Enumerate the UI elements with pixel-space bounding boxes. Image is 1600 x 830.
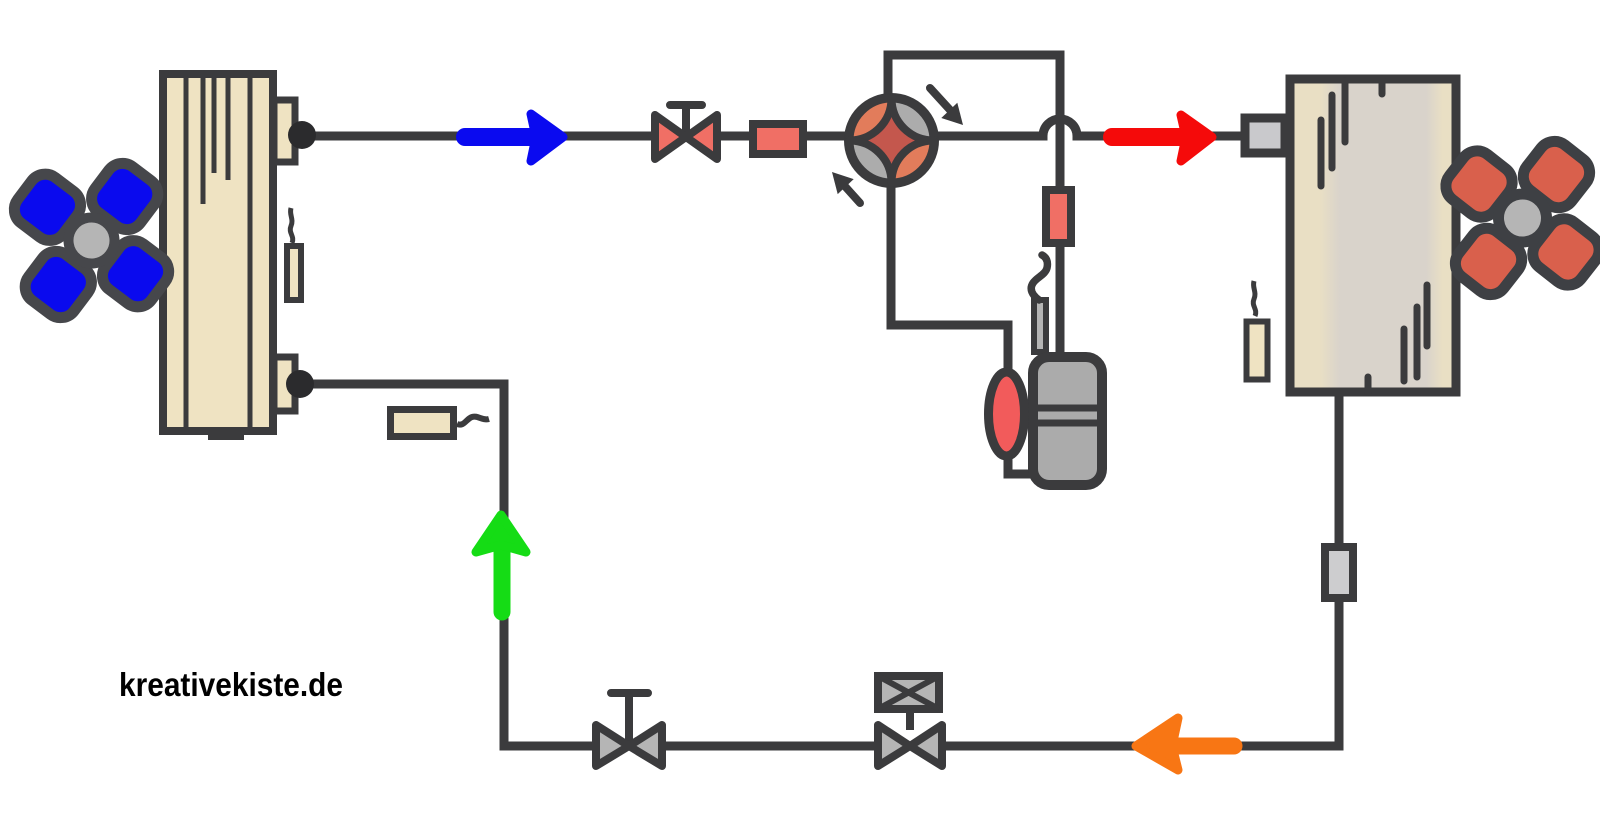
compressor band line 1	[1030, 405, 1104, 412]
sensor S3 bulb (horizontal)	[391, 410, 454, 437]
filter FD2 (red, vertical)	[1046, 190, 1071, 243]
lens bottom-left (cool)	[850, 141, 892, 183]
HX1 bottom port dot	[286, 370, 314, 398]
heat exchanger HX1 bottom port tab	[274, 357, 295, 411]
wire filter to compressor	[1056, 240, 1065, 355]
flow arrow blue	[465, 114, 563, 161]
lens top-right (cool)	[892, 99, 934, 141]
heat exchanger HX1 top port tab	[274, 100, 295, 162]
HX1 fin line 4	[226, 78, 231, 180]
hand valve V2 body	[596, 725, 662, 766]
wire top main pipe with crossover hop	[302, 119, 1286, 136]
wire 4-way valve top loop	[888, 55, 1060, 186]
4-way reversing valve	[850, 99, 934, 183]
fan F2 (red)	[1434, 130, 1600, 307]
solenoid valve V3 coil box	[878, 676, 939, 709]
HX1 fin line 2	[201, 78, 206, 204]
HX1 fin line 5	[248, 78, 253, 427]
lens top-left (warm)	[850, 99, 892, 141]
sensor S3 squiggle	[457, 417, 489, 425]
sensor S1 bulb	[287, 246, 301, 300]
HX1 fin line 3	[212, 78, 217, 173]
HX1 fin line 1	[184, 78, 189, 427]
compressor suction stub	[1034, 300, 1046, 352]
HX1 bottom nub	[208, 431, 244, 440]
heat exchanger HX1 body	[163, 74, 273, 431]
filter FD1 (red)	[753, 124, 803, 154]
HX2 hatch lines bottom	[1368, 285, 1427, 392]
flow arrow orange	[1136, 718, 1234, 770]
compressor body	[1033, 357, 1102, 485]
wire low loop: left HX to bottom line to right HX	[300, 384, 1339, 746]
fan F1 (blue)	[2, 151, 181, 330]
rotation arrow lower-left	[832, 172, 860, 203]
rotation arrow upper-right	[930, 88, 963, 125]
flow arrow red	[1112, 115, 1212, 161]
HX1 top port dot	[288, 121, 316, 149]
expansion valve V1 handle	[670, 105, 702, 133]
solenoid valve V3 stem	[906, 712, 914, 730]
solenoid valve V3 body	[878, 725, 942, 766]
filter FD3 (gray)	[1325, 547, 1353, 598]
compressor band line 2	[1030, 420, 1104, 427]
HX2 inlet connector	[1245, 118, 1285, 153]
svg-text:kreativekiste.de: kreativekiste.de	[119, 666, 343, 703]
sensor S1 squiggle	[290, 208, 293, 243]
wire 4-way valve bottom loop to compressor	[891, 180, 1032, 474]
sensor S2 bulb	[1247, 322, 1268, 380]
lens bottom-right (warm)	[892, 141, 934, 183]
solenoid valve V3 coil cross	[878, 676, 939, 709]
expansion valve V1 body	[655, 115, 717, 159]
flow arrow green	[476, 515, 526, 612]
HX2 hatch lines top	[1321, 79, 1382, 186]
compressor sensor squiggle	[1031, 255, 1047, 300]
sensor S2 squiggle	[1253, 281, 1256, 316]
hand valve V2 handle	[611, 693, 648, 742]
accumulator (red oval)	[989, 372, 1025, 456]
